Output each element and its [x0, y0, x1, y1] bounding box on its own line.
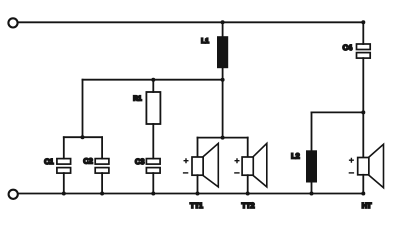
wire C4 top lead [362, 22, 364, 44]
node HT on bottom bus [361, 192, 365, 196]
capacitor C4 [343, 43, 371, 58]
wire TT2 top lead [247, 138, 249, 157]
wire TT1 bottom lead [197, 175, 199, 193]
capacitor C1 [44, 157, 70, 173]
wire L2 bottom lead [311, 183, 313, 194]
wire TT1 top lead [197, 138, 199, 157]
speaker HT [349, 144, 383, 210]
node rail meets L1 line [221, 78, 225, 82]
wire C3 bottom lead [152, 173, 154, 193]
wire TT2 bottom lead [247, 175, 249, 193]
speaker TT1 [184, 143, 219, 210]
wire C4 down to HT [362, 58, 364, 157]
wire R1 to C3 [152, 124, 154, 159]
svg-text:C2: C2 [83, 157, 92, 166]
wire L2 loop top [312, 111, 364, 113]
svg-text:L2: L2 [291, 152, 299, 161]
svg-text:L1: L1 [201, 38, 209, 45]
wire C1 top lead [63, 137, 65, 158]
resistor R1 [133, 92, 160, 124]
node L1 line meets speaker bracket [221, 136, 225, 140]
input terminal bottom [9, 190, 18, 199]
wire bottom bus [18, 193, 363, 195]
wire HT bottom lead [362, 175, 364, 194]
wire top bus [18, 21, 364, 23]
inductor L2 [291, 150, 317, 182]
svg-text:R1: R1 [133, 95, 142, 102]
node rail meets R1 [151, 78, 155, 82]
wire C2 top lead [101, 137, 103, 158]
wire riser to C1/C2 bracket [82, 80, 84, 138]
wire L1 top lead [222, 22, 224, 36]
wire bracket over C1 C2 [64, 136, 102, 138]
speaker TT2 [235, 143, 267, 210]
svg-text:C3: C3 [135, 157, 144, 166]
node L2 on bottom bus [310, 192, 314, 196]
node TT2 on bottom bus [246, 192, 250, 196]
svg-text:TT1: TT1 [190, 201, 203, 210]
node junction top of C4 [361, 20, 365, 24]
wire L2 top lead [311, 112, 313, 150]
capacitor C3 [135, 157, 160, 173]
inductor L1 [201, 36, 228, 68]
wire bracket over TT1 TT2 [198, 137, 248, 139]
node C2 on bottom bus [100, 192, 104, 196]
svg-text:HT: HT [362, 201, 372, 210]
node TT1 on bottom bus [196, 192, 200, 196]
node riser meets bracket [81, 135, 85, 139]
wire middle rail [83, 79, 223, 81]
wire R1 top lead [152, 80, 154, 92]
node L2 loop meets C4 line [361, 110, 365, 114]
input terminal top [8, 18, 17, 27]
wire C1 bottom lead [63, 173, 65, 193]
svg-text:C1: C1 [44, 157, 53, 166]
capacitor C2 [83, 157, 108, 174]
node C1 on bottom bus [62, 192, 66, 196]
node junction top of L1 [221, 20, 225, 24]
svg-text:C4: C4 [343, 43, 353, 52]
node C3 on bottom bus [151, 192, 155, 196]
svg-text:TT2: TT2 [242, 201, 255, 210]
wire L1 bottom lead down to speaker bracket [222, 68, 224, 137]
wire C2 bottom lead [101, 173, 103, 193]
